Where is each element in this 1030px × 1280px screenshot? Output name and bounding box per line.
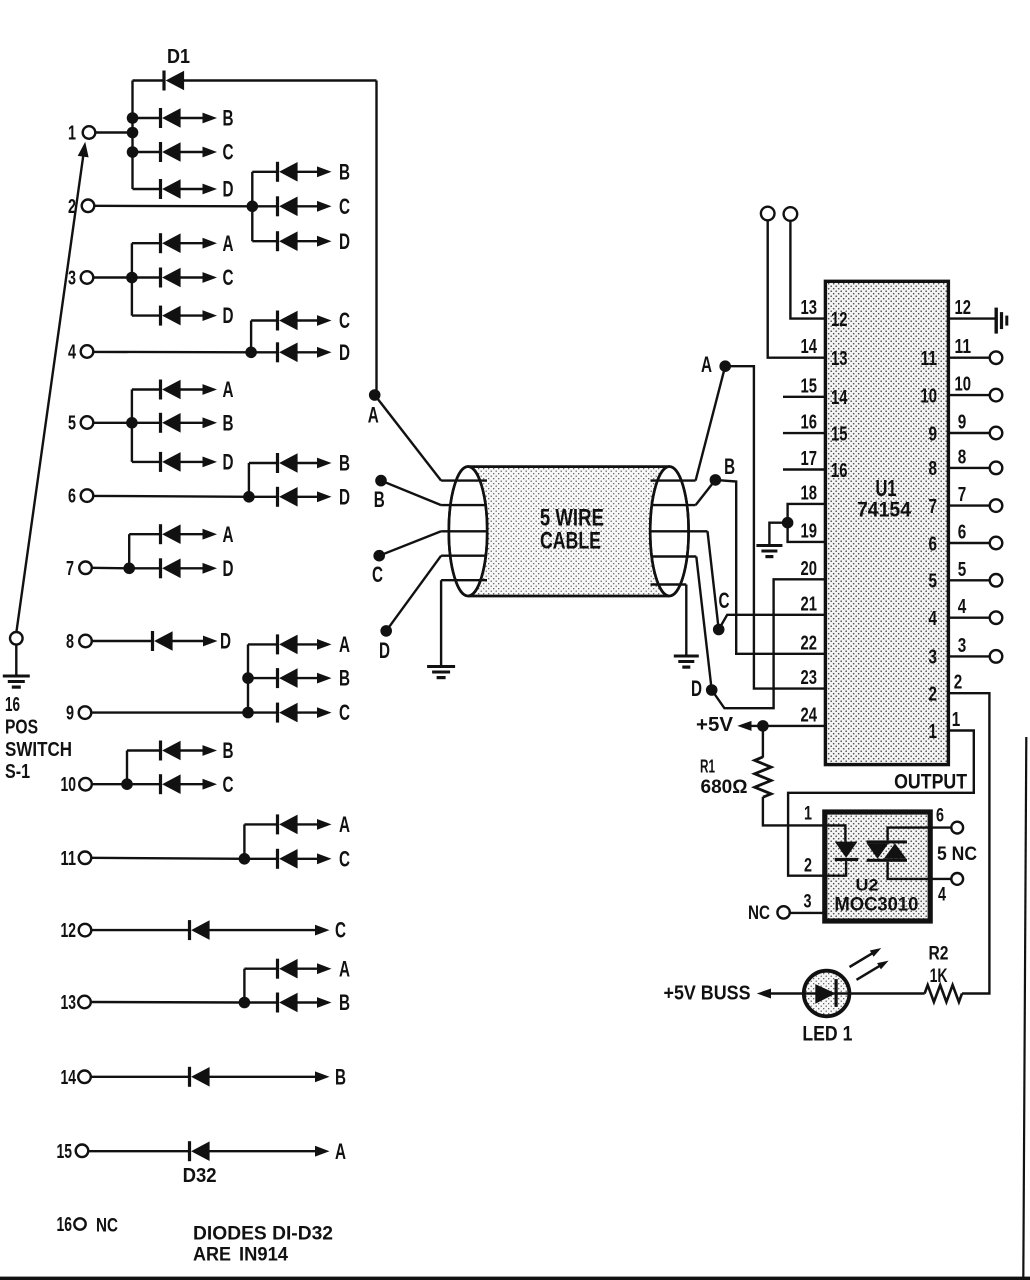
- label +5V BUSS: [664, 982, 751, 1005]
- wire net A to U1 pin23: [725, 366, 825, 688]
- label 16 POS SWITCH S-1: [5, 694, 72, 783]
- ground cable left: [427, 665, 455, 679]
- svg-text:A: A: [701, 352, 712, 377]
- svg-text:D: D: [379, 638, 390, 663]
- wire D-dot to cable: [386, 556, 441, 631]
- wire cable to A-dot right: [696, 366, 726, 480]
- svg-text:6: 6: [936, 806, 944, 827]
- switch terminal 1: [68, 123, 95, 145]
- svg-text:IN914: IN914: [239, 1244, 288, 1266]
- node A right: [701, 352, 731, 377]
- label D32: [183, 1165, 217, 1187]
- net label D: [223, 450, 234, 475]
- svg-text:23: 23: [801, 667, 818, 689]
- svg-text:21: 21: [801, 593, 818, 615]
- wire net D to U1 pin20: [712, 579, 826, 708]
- U1 output pin 6 line: [948, 542, 989, 544]
- switch terminal 7: [66, 558, 92, 580]
- U2 pin6 circle: [951, 822, 963, 834]
- svg-text:2: 2: [954, 672, 963, 694]
- wire wiper to ground: [15, 645, 17, 676]
- switch terminal 4: [68, 342, 93, 364]
- wire cable gnd right down: [685, 585, 687, 656]
- svg-text:D: D: [223, 450, 234, 475]
- wire cable to D-dot right: [696, 557, 711, 691]
- node row13 junction: [239, 997, 251, 1009]
- svg-text:C: C: [372, 562, 383, 587]
- svg-text:D: D: [220, 629, 231, 654]
- node row5 junction: [126, 417, 138, 429]
- pin label 4 (U2): [938, 885, 946, 906]
- svg-text:OUTPUT: OUTPUT: [894, 771, 967, 794]
- U1 output pin 3 line: [948, 655, 989, 657]
- wire terminal4 to bus: [93, 351, 251, 354]
- svg-text:A: A: [335, 1139, 346, 1164]
- U1 output pin 5 circle: [990, 574, 1003, 587]
- svg-text:D: D: [223, 303, 234, 328]
- pin label 14 (outside left): [801, 336, 818, 358]
- wire A-dot to cable: [375, 395, 441, 481]
- node row4 junction: [245, 347, 257, 359]
- diode D5: [252, 162, 331, 182]
- svg-text:16: 16: [5, 694, 20, 716]
- pin label 12 (inside left): [831, 309, 848, 331]
- net label D: [220, 629, 231, 654]
- net label B: [223, 106, 234, 131]
- pin label 10 (inside right): [921, 385, 938, 407]
- U1 output pin 7 circle: [990, 499, 1003, 512]
- pin label 24 (outside left): [801, 704, 818, 726]
- wire cable stub gnd left: [441, 579, 487, 581]
- net label A: [335, 1139, 346, 1164]
- diode D20: [92, 631, 218, 651]
- svg-text:1: 1: [804, 804, 812, 825]
- net label D: [223, 303, 234, 328]
- wire +5V to R1: [762, 726, 764, 758]
- svg-text:4: 4: [938, 885, 946, 906]
- net label A: [339, 956, 350, 981]
- diode D17: [249, 487, 332, 507]
- diode D9: [132, 268, 217, 288]
- svg-text:8: 8: [929, 458, 938, 480]
- svg-text:D: D: [691, 676, 702, 701]
- diode D13: [132, 380, 217, 400]
- pin label 14 (inside left): [831, 387, 848, 409]
- wire strobe to ground: [769, 523, 787, 545]
- net label C: [223, 265, 234, 290]
- pin label 7 (outside right): [958, 484, 967, 506]
- pin label 6 (inside right): [929, 533, 938, 555]
- pin label 5 (inside right): [929, 571, 938, 593]
- pin label 9 (outside right): [958, 412, 967, 434]
- svg-text:D: D: [223, 556, 234, 581]
- note ARE IN914: [193, 1244, 288, 1266]
- node B left: [374, 475, 387, 512]
- pin label 15 (outside left): [801, 375, 818, 397]
- net label D: [223, 556, 234, 581]
- pin label 3 (outside right): [958, 635, 967, 657]
- net label C: [339, 846, 350, 871]
- label 1K: [930, 965, 948, 987]
- wire net B to U1 pin22: [715, 480, 825, 654]
- svg-text:SWITCH: SWITCH: [5, 739, 72, 761]
- net label A: [339, 632, 350, 657]
- svg-text:11: 11: [61, 848, 77, 870]
- wire R1 to U2 pin1: [763, 797, 824, 825]
- U1 output pin 10 circle: [990, 389, 1003, 402]
- net label C: [335, 918, 346, 943]
- pin label 7 (inside right): [929, 496, 938, 518]
- wire U1 pin1 to U2 pin2: [788, 731, 974, 876]
- wire terminal2 to bus: [94, 205, 252, 208]
- wire +5V to U1 pin24: [748, 725, 825, 727]
- cable right ellipse: [650, 467, 688, 596]
- svg-text:10: 10: [61, 774, 77, 796]
- net label A: [339, 812, 350, 837]
- node row1-B junction: [127, 112, 139, 124]
- wire U1 pin12 to ground: [948, 317, 994, 319]
- pin label 9 (inside right): [929, 423, 938, 445]
- net label C: [339, 194, 350, 219]
- diode D2: [133, 108, 218, 128]
- svg-text:D: D: [223, 177, 234, 202]
- svg-text:6: 6: [68, 486, 76, 508]
- pin label 1 (outside right): [952, 709, 961, 731]
- svg-text:12: 12: [61, 920, 77, 942]
- svg-text:C: C: [335, 918, 346, 943]
- net label D: [339, 229, 350, 254]
- switch terminal 14: [61, 1067, 91, 1089]
- cable left ellipse outline: [449, 467, 487, 596]
- diode D18: [129, 524, 217, 544]
- pin label 4 (inside right): [929, 608, 938, 630]
- U1 output pin 3 circle: [990, 650, 1003, 663]
- wire circle1 to pin13line: [768, 220, 826, 357]
- switch terminal 13: [61, 992, 91, 1014]
- svg-text:C: C: [719, 588, 730, 613]
- svg-text:+5V BUSS: +5V BUSS: [664, 982, 751, 1005]
- input circle 1: [761, 207, 775, 221]
- svg-text:15: 15: [57, 1141, 73, 1163]
- net label C: [339, 700, 350, 725]
- pin label 2 (inside right): [929, 684, 938, 706]
- svg-text:+5V: +5V: [696, 714, 734, 736]
- U2 internal LED wire top: [827, 825, 845, 841]
- U1 output pin 11 circle: [990, 351, 1003, 364]
- diode D7: [252, 231, 331, 251]
- LED1 emission arrow 1: [850, 948, 882, 967]
- wire cable stub B right: [651, 504, 696, 506]
- U1 output pin 8 line: [948, 467, 989, 469]
- net label A: [223, 231, 234, 256]
- ground cable right: [674, 655, 699, 669]
- svg-text:C: C: [339, 308, 350, 333]
- LED LED1 symbol: [815, 979, 837, 1007]
- wire terminal5 to bus: [93, 422, 132, 424]
- svg-text:NC: NC: [748, 903, 770, 924]
- diode D19: [129, 558, 217, 578]
- label NC (U2 pin3): [748, 903, 770, 924]
- pin label 5 (outside right): [958, 559, 967, 581]
- node row6 junction: [243, 491, 255, 503]
- label U2: [856, 877, 879, 895]
- diode D11: [251, 311, 331, 331]
- svg-text:15: 15: [801, 375, 818, 397]
- diode D22: [248, 668, 332, 688]
- U2 pin6 line: [930, 826, 951, 828]
- wire terminal3 to bus: [93, 276, 132, 278]
- diode D29: [244, 959, 331, 979]
- pin label 20 (outside left): [801, 558, 818, 580]
- svg-text:9: 9: [929, 423, 938, 445]
- svg-text:1: 1: [929, 721, 938, 743]
- svg-text:16: 16: [801, 412, 818, 434]
- svg-text:B: B: [335, 1064, 346, 1089]
- wire cable stub B left: [441, 504, 487, 506]
- wire cable stub D right: [651, 555, 697, 557]
- svg-text:D: D: [339, 340, 350, 365]
- pin label 16 (outside left): [801, 412, 818, 434]
- svg-text:B: B: [374, 487, 385, 512]
- cable body fill: [468, 467, 669, 596]
- svg-text:U1: U1: [876, 475, 897, 501]
- svg-text:NC: NC: [96, 1215, 118, 1236]
- pin label 17 (outside left): [801, 448, 818, 470]
- label +5V: [696, 714, 734, 736]
- svg-text:16: 16: [57, 1214, 73, 1236]
- U1 output pin 6 circle: [990, 537, 1003, 550]
- U1 output pin 4 line: [948, 617, 989, 619]
- node row3 junction: [126, 272, 138, 284]
- wire terminal13 to bus: [91, 1001, 245, 1004]
- switch terminal 15: [57, 1141, 89, 1163]
- net label B: [339, 990, 350, 1015]
- label D1: [167, 46, 190, 68]
- svg-text:13: 13: [801, 297, 818, 319]
- pin label 11 (inside right): [921, 348, 938, 370]
- svg-text:4: 4: [958, 596, 967, 618]
- pin label 21 (outside left): [801, 593, 818, 615]
- svg-text:11: 11: [921, 348, 938, 370]
- svg-text:1: 1: [68, 123, 76, 145]
- U2 pin3 line: [790, 912, 825, 914]
- bus row9 vertical: [247, 644, 249, 712]
- svg-text:B: B: [223, 410, 234, 435]
- pin label 3 (inside right): [929, 647, 938, 669]
- pin label 1 (inside right): [929, 721, 938, 743]
- node D left: [379, 625, 392, 663]
- svg-text:A: A: [339, 812, 350, 837]
- svg-text:C: C: [339, 194, 350, 219]
- net label B: [339, 159, 350, 184]
- svg-text:U2: U2: [856, 877, 879, 895]
- node row7 junction: [123, 563, 135, 575]
- net label B: [339, 451, 350, 476]
- wire cable stub D left: [441, 555, 487, 557]
- label 680ohm: [701, 776, 748, 798]
- pin label 13 (outside left): [801, 297, 818, 319]
- svg-text:B: B: [339, 990, 350, 1015]
- svg-text:680Ω: 680Ω: [701, 776, 748, 798]
- svg-text:B: B: [339, 451, 350, 476]
- svg-text:16: 16: [831, 460, 848, 482]
- diode D27: [244, 849, 331, 869]
- IC U2 MOC3010 body: [825, 812, 930, 921]
- svg-text:8: 8: [958, 446, 967, 468]
- page edge vertical line: [1023, 737, 1026, 1280]
- svg-text:A: A: [368, 403, 379, 428]
- label LED 1: [802, 1023, 852, 1046]
- node row10 junction: [121, 778, 133, 790]
- diode D12: [251, 342, 331, 362]
- svg-text:D: D: [339, 484, 350, 509]
- svg-text:11: 11: [955, 336, 972, 358]
- pin label 15 (inside left): [831, 423, 848, 445]
- switch terminal 10: [61, 774, 92, 796]
- U2 internal triac wire top: [888, 828, 928, 841]
- bus row13 vertical: [243, 969, 245, 1003]
- diode D8: [132, 233, 217, 253]
- wire terminal9 to bus: [91, 711, 248, 713]
- pin label 11 (outside right): [955, 336, 972, 358]
- node C left: [372, 550, 385, 587]
- switch terminal 12: [61, 920, 92, 942]
- svg-text:DIODES DI-D32: DIODES DI-D32: [193, 1223, 333, 1245]
- U1 output pin 8 circle: [990, 462, 1003, 475]
- bus row4 vertical: [250, 321, 252, 353]
- svg-text:2: 2: [929, 684, 938, 706]
- switch terminal 2: [68, 196, 94, 218]
- svg-text:D: D: [339, 229, 350, 254]
- svg-text:5 NC: 5 NC: [937, 844, 977, 865]
- svg-text:A: A: [223, 377, 234, 402]
- node row1-term junction: [127, 127, 139, 139]
- net label B: [335, 1064, 346, 1089]
- svg-text:17: 17: [801, 448, 818, 470]
- svg-text:14: 14: [801, 336, 818, 358]
- resistor R2: [925, 985, 962, 1002]
- arrow +5V: [737, 721, 751, 731]
- wire net-A vertical right: [375, 81, 377, 396]
- pin label 23 (outside left): [801, 667, 818, 689]
- svg-text:24: 24: [801, 704, 818, 726]
- svg-text:ARE: ARE: [193, 1244, 231, 1266]
- wire C-dot to cable: [379, 531, 441, 555]
- wire B-dot to cable: [381, 481, 441, 506]
- LED1 emission arrow 2: [857, 961, 889, 980]
- wire cable stub A right: [651, 479, 696, 481]
- svg-text:3: 3: [68, 268, 76, 290]
- node pins18-19: [782, 517, 794, 529]
- U1 output pin 7 line: [948, 504, 989, 506]
- page edge bottom line: [0, 1277, 1030, 1280]
- svg-text:C: C: [339, 846, 350, 871]
- label 74154: [857, 499, 911, 522]
- U1 output pin 5 line: [948, 579, 989, 581]
- U2 pin4 line: [930, 878, 951, 880]
- wire terminal6 to bus: [93, 495, 249, 498]
- LED LED1 circle: [804, 971, 850, 1017]
- svg-text:B: B: [339, 666, 350, 691]
- net label D: [339, 340, 350, 365]
- diode D4: [133, 179, 218, 199]
- pin label 12 (outside right): [955, 297, 972, 319]
- diode D32: [88, 1141, 329, 1161]
- diode D26: [244, 814, 331, 834]
- input circle 2: [784, 207, 798, 221]
- svg-text:14: 14: [61, 1067, 77, 1089]
- node row2 junction: [247, 201, 259, 213]
- wire cable to C-dot right: [708, 531, 719, 629]
- wire +5V BUSS to R2: [768, 992, 925, 994]
- svg-text:9: 9: [958, 412, 967, 434]
- svg-text:4: 4: [68, 342, 77, 364]
- bus row1 vertical: [131, 81, 133, 190]
- wire cable to B-dot right: [696, 480, 716, 505]
- node D right: [691, 676, 718, 701]
- svg-text:19: 19: [801, 520, 818, 542]
- wire cable stub C right: [651, 530, 708, 532]
- svg-text:6: 6: [958, 522, 967, 544]
- U1 output pin 11 line: [948, 357, 989, 359]
- svg-text:C: C: [223, 265, 234, 290]
- cable top edge: [468, 465, 669, 468]
- svg-text:13: 13: [831, 348, 848, 370]
- label 5 NC (U2): [937, 844, 977, 865]
- U2 pin4 circle: [951, 873, 963, 885]
- svg-text:20: 20: [801, 558, 818, 580]
- svg-text:7: 7: [929, 496, 938, 518]
- wire terminal10 to bus: [92, 783, 127, 785]
- svg-text:A: A: [339, 632, 350, 657]
- svg-text:3: 3: [929, 647, 938, 669]
- diode D15: [132, 452, 217, 472]
- diode D31: [91, 1067, 330, 1087]
- U2 internal LED: [835, 842, 858, 862]
- wire cable stub A left: [441, 479, 487, 481]
- wire U1 pin2 to R2: [948, 693, 989, 993]
- net label B: [223, 410, 234, 435]
- diode D16: [249, 453, 332, 473]
- pin label 8 (outside right): [958, 446, 967, 468]
- net label D: [339, 484, 350, 509]
- pin label 8 (inside right): [929, 458, 938, 480]
- U1 pin 17 stub: [783, 468, 825, 470]
- bus row6 vertical: [248, 463, 250, 497]
- U1 output pin 9 circle: [990, 427, 1003, 440]
- svg-text:R1: R1: [700, 756, 715, 776]
- net label C: [339, 308, 350, 333]
- net label A: [223, 522, 234, 547]
- U2 internal triac wire bottom: [888, 862, 928, 879]
- node B right: [710, 454, 735, 486]
- svg-text:3: 3: [958, 635, 967, 657]
- net label C: [223, 772, 234, 797]
- wire cable stub C left: [441, 530, 487, 532]
- wire circle2 to pin12line: [790, 221, 825, 319]
- bus row2 vertical: [251, 172, 253, 241]
- svg-text:A: A: [339, 956, 350, 981]
- resistor R1: [755, 757, 771, 797]
- node A left: [368, 389, 381, 427]
- svg-text:15: 15: [831, 423, 848, 445]
- svg-text:D32: D32: [183, 1165, 217, 1187]
- diode D25: [127, 774, 217, 794]
- label OUTPUT: [894, 771, 967, 794]
- diode D28: [91, 920, 329, 940]
- net label B: [223, 738, 234, 763]
- svg-text:LED 1: LED 1: [802, 1023, 852, 1046]
